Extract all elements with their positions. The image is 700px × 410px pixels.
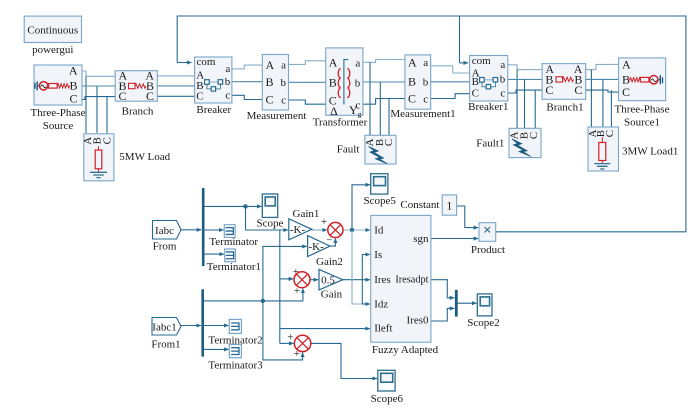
wire: bus to Scope [203,205,261,207]
wire: Iresadpt to Mux [431,280,454,298]
wire: tap down to Fault1 C [534,90,536,128]
svg-text:Ires0: Ires0 [407,315,429,327]
svg-text:c: c [423,93,428,105]
svg-text:C: C [408,91,416,105]
svg-text:Iabc1: Iabc1 [152,322,176,334]
wire: Measurement1 b to Breaker1 B [431,81,470,83]
wire: sum3 to Scope6 [311,343,377,378]
wire: Gain 0.5 to Ires input [343,279,370,281]
svg-text:C: C [196,90,203,102]
svg-text:Terminator: Terminator [209,236,258,248]
wire: Transformer a to Measurement1 A [363,60,405,63]
svg-text:+: + [294,285,300,297]
svg-text:Fault: Fault [337,144,360,156]
svg-text:Measurement: Measurement [247,110,307,122]
svg-text:Source: Source [43,120,74,132]
wire: down from Scope line [245,206,247,230]
svg-text:From1: From1 [151,339,180,351]
wire: to Ileft input [280,328,370,330]
wire: up to Gain2 input [263,246,307,301]
Branch1 block [542,62,586,114]
wire: sum1 to Id input [343,229,370,231]
svg-text:Transformer: Transformer [313,117,368,129]
wire: Transformer b to Measurement1 B [363,81,405,83]
wire: tap down to Fault A [369,62,371,135]
wire: sgn to Product [431,238,478,240]
Breaker1 block [468,55,508,113]
svg-text:+: + [321,216,327,228]
svg-text:C: C [622,85,630,99]
wire: Branch1 a to Source1 A [586,64,619,69]
wire: Source A to Branch A [82,71,115,76]
svg-text:B: B [329,76,337,90]
svg-text:Id: Id [374,224,384,236]
svg-text:C: C [528,132,540,139]
wire: tap down to 3MW Load1 C [610,90,612,127]
svg-text:a: a [500,59,505,71]
junction: Scope/Gain1 tap [243,204,247,208]
svg-text:Idz: Idz [374,298,388,310]
svg-text:b: b [423,77,429,89]
svg-text:Constant: Constant [400,199,439,211]
wire: Source C to Branch C [82,97,115,100]
svg-text:From: From [153,241,177,253]
svg-text:Gain2: Gain2 [316,256,343,268]
svg-text:c: c [500,87,505,99]
svg-text:B: B [408,75,416,89]
svg-text:Ileft: Ileft [374,323,392,335]
svg-text:B: B [472,76,479,88]
wire: up to Scope5 [352,185,370,230]
svg-text:b: b [281,77,287,89]
svg-text:-K-: -K- [290,224,306,236]
junction: Scope5 / Idz tap [350,228,354,232]
wire: Branch1 c to Source1 C [586,90,619,92]
Fault1 block [508,128,541,157]
Transformer block [313,48,368,129]
wire: tap down to 3MW Load1 B [602,79,604,127]
svg-text:1: 1 [446,199,452,213]
wire: bus to Terminator [203,229,223,231]
Gain 0.5 block [319,269,343,300]
Scope2 block [467,294,499,329]
svg-text:a: a [423,57,428,69]
wire: Breaker1 a to Branch1 A [508,65,542,70]
svg-text:C: C [383,139,395,146]
svg-text:b: b [355,78,361,90]
svg-text:C: C [119,89,127,103]
wire: Breaker1 c to Branch1 C [508,90,542,93]
svg-text:Iresadpt: Iresadpt [395,275,428,286]
svg-text:C: C [574,83,582,97]
wire: tap down to Fault C [388,99,390,136]
wire: Measurement b to Transformer B [289,81,326,83]
svg-text:a: a [355,58,360,70]
wire: Transformer c to Measurement1 C [363,99,405,105]
svg-text:Three-Phase: Three-Phase [615,104,670,116]
Terminator2 block [208,319,262,346]
wire: Branch c to Breaker C [157,95,194,97]
wire: feedback sgn line Product output to top and left down to Breaker com [177,16,686,232]
svg-text:Terminator3: Terminator3 [208,359,263,371]
wire: Mux to Scope2 [458,302,477,304]
wire: tap down to Fault1 B [524,79,526,128]
svg-text:Gain: Gain [321,289,343,301]
svg-text:5MW Load: 5MW Load [119,151,170,163]
From1 tag Iabc1 [151,318,181,351]
wire: From tag to bus [181,229,201,231]
wire: sum2 to Gain 0.5 [310,279,318,281]
svg-text:com: com [197,56,216,68]
powergui block [24,16,81,56]
svg-text:Fuzzy Adapted: Fuzzy Adapted [372,344,439,356]
wire: tap down to 5MW Load B [96,86,98,133]
Fuzzy Adapted block [371,215,439,355]
svg-text:Product: Product [471,244,505,256]
Gain2 block [308,236,343,268]
svg-text:+: + [294,348,300,360]
svg-text:+: + [287,331,293,343]
wire: Gain1 to sum1 [312,229,327,231]
Scope6 block [371,370,404,405]
wire: to sum2 left input [280,278,293,280]
wire: arrow into Breaker com [177,62,191,64]
wire: vertical Ileft feeder [279,230,281,343]
wire: Id tap down to Idz level [352,230,362,304]
Scope5 block [364,174,397,207]
svg-text:C: C [146,89,154,103]
svg-text:Branch1: Branch1 [546,102,583,114]
Terminator1 block [207,249,261,273]
svg-text:C: C [266,93,274,107]
wire: Measurement c to Transformer C [289,100,326,104]
svg-text:A: A [408,56,417,70]
svg-text:B: B [266,75,274,89]
wire: Gain2 to sum1 bottom [330,239,335,247]
3MW Load1 block [587,127,619,171]
wire: arrow into Breaker1 com [460,62,469,64]
wire: tap down to Fault1 A [516,70,518,129]
Measurement block [247,55,307,123]
wire: bus to Terminator1 [203,253,224,255]
wire: Breaker1 b to Branch1 B [508,78,542,80]
svg-text:C: C [545,83,553,97]
wire: From1 tag to bus [181,325,201,327]
svg-text:Scope5: Scope5 [364,195,397,207]
svg-text:Scope6: Scope6 [371,393,404,405]
wire: Breaker b to Measurement B [232,81,262,83]
sum block before Scope6 [287,331,311,360]
bus: Iabc1 signal bus [201,289,204,356]
wire: bus to Terminator2 [203,325,229,327]
Mux bar before Scope2 [455,290,458,317]
wire: to Idz input [362,303,370,305]
svg-text:Iabc: Iabc [155,225,174,237]
wire: bus Iabc1 to sum2 bottom input [203,289,303,301]
svg-text:Fault1: Fault1 [476,138,504,150]
svg-text:Terminator1: Terminator1 [207,261,261,273]
Scope block [257,194,284,229]
svg-text:A: A [266,58,275,72]
svg-text:Gain1: Gain1 [293,208,320,220]
svg-text:0.5: 0.5 [321,275,335,287]
svg-text:Ires: Ires [374,274,391,286]
svg-text:+: + [293,266,299,278]
svg-text:c: c [225,89,230,101]
Terminator block [209,225,258,248]
sum block (Gain1 - Gain2) [321,216,343,247]
svg-text:Scope2: Scope2 [467,317,499,329]
5MW Load block [82,134,114,181]
wire: tap down to 5MW Load C [106,97,108,133]
wire: Breaker c to Measurement C [232,95,262,99]
svg-text:Breaker: Breaker [196,104,231,116]
svg-text:Breaker1: Breaker1 [468,101,508,113]
svg-text:B: B [69,79,77,93]
svg-text:C: C [69,92,77,106]
wire: feedback branch down to Breaker1 com [459,16,461,63]
svg-text:c: c [281,95,286,107]
wire: Constant to Product [457,206,479,228]
Constant block [400,195,456,215]
wire: Branch a to Breaker A [157,75,194,77]
svg-text:C: C [101,137,113,144]
svg-text:powergui: powergui [32,44,73,56]
svg-text:Measurement1: Measurement1 [390,108,455,120]
svg-text:A: A [69,64,78,78]
Measurement1 block [390,55,455,120]
svg-text:a: a [281,59,286,71]
Branch block [115,69,157,118]
wire: Measurement a to Transformer A [289,61,326,65]
wire: tap down to 3MW Load1 A [590,70,592,127]
wire: Breaker a to Measurement A [232,65,262,69]
wire: bus to Terminator3 [203,348,229,350]
Three-Phase Source [31,64,86,132]
sum block before Gain 0.5 [293,266,310,297]
svg-text:C: C [472,88,479,100]
svg-text:3MW Load1: 3MW Load1 [622,146,678,158]
svg-text:Three-Phase: Three-Phase [31,107,86,119]
svg-text:Scope: Scope [257,217,284,229]
svg-text:-K-: -K- [308,241,324,253]
wire: Source B to Branch B [82,85,115,87]
svg-text:Continuous: Continuous [27,25,78,37]
svg-text:b: b [500,74,506,86]
svg-text:sgn: sgn [413,233,429,245]
junction: Gain2 / sum3 tap [261,299,265,303]
svg-text:com: com [472,55,491,67]
svg-text:Is: Is [374,249,382,261]
wire: Branch b to Breaker B [157,85,194,87]
Product block [471,223,505,256]
Three-Phase Source1 [615,57,670,128]
svg-text:a: a [225,63,230,75]
svg-text:b: b [225,76,231,88]
svg-text:−: − [326,235,332,247]
bus: Iabc signal bus [202,188,205,266]
wire: Measurement1 a to Breaker1 A [431,66,470,73]
wire: into Gain1 [246,229,289,231]
wire: tap down to 5MW Load A [85,76,87,133]
Fault block [364,135,396,164]
wire: Measurement1 c to Breaker1 C [431,94,470,99]
wire: down to sum3 bottom input [263,301,303,360]
svg-text:A: A [329,56,338,70]
svg-text:Source1: Source1 [624,117,660,129]
wire: Branch1 b to Source1 B [586,78,619,80]
wire: tap down to Fault B [379,82,381,135]
Terminator3 block [208,345,263,372]
wire: to sum3 left input [280,342,294,344]
svg-text:Branch: Branch [122,106,154,118]
wire: up to Is input [362,255,370,305]
From tag Iabc [153,221,182,253]
Breaker block [195,56,232,116]
svg-text:C: C [604,130,616,137]
wire: Ires0 to Mux [431,308,454,321]
Gain1 block [289,208,320,240]
svg-text:A: A [622,57,631,71]
